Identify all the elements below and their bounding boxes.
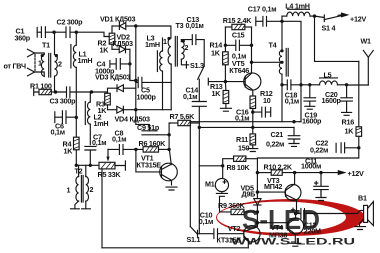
svg-text:Д9Б: Д9Б xyxy=(242,190,256,199)
svg-text:360p: 360p xyxy=(15,34,31,43)
svg-text:1000м: 1000м xyxy=(301,162,321,171)
speaker B1 xyxy=(358,202,374,227)
capacitor C22 xyxy=(336,143,359,153)
resistor R11 xyxy=(250,127,256,148)
svg-text:+12V: +12V xyxy=(348,169,364,178)
wire VD1 to T3 xyxy=(136,26,171,38)
wire R15 right down xyxy=(251,27,253,45)
node U junction (S1.4) xyxy=(313,14,316,17)
wire S1.4 node down and right xyxy=(315,16,359,61)
resistor R16 xyxy=(356,127,362,148)
wire tee down to R6 right xyxy=(168,135,170,150)
switch S1.3 xyxy=(186,62,204,102)
inductor L3 xyxy=(157,38,162,110)
node T4-C18 junction xyxy=(280,83,283,86)
svg-text:КД503: КД503 xyxy=(113,39,134,48)
node C junction xyxy=(54,90,57,93)
svg-text:+12V: +12V xyxy=(350,15,366,24)
resistor R7 xyxy=(169,120,199,135)
node V junction (C19/L5 left) xyxy=(308,83,311,86)
inductor L4 xyxy=(282,9,315,16)
svg-text:C21: C21 xyxy=(271,130,284,139)
resistor R8 xyxy=(223,156,258,166)
wire junction T up / down to T4 xyxy=(282,16,301,122)
svg-text:R8 10K: R8 10K xyxy=(227,163,251,172)
svg-text:WWW.S-LED.RU: WWW.S-LED.RU xyxy=(231,236,355,247)
svg-text:2: 2 xyxy=(185,43,189,52)
svg-text:R10 2,2K: R10 2,2K xyxy=(264,163,293,172)
wire detector output xyxy=(136,109,171,111)
wire T1 secondary top xyxy=(54,32,56,54)
inductor L1 xyxy=(71,32,76,117)
resistor R10 xyxy=(257,170,282,175)
node M junction (VT1 base node) xyxy=(134,148,137,151)
svg-text:0,22м: 0,22м xyxy=(266,140,284,149)
node AD junction (R9 right / VD5 bottom) xyxy=(256,210,259,213)
node C17-line/antenna-line crossing junction xyxy=(299,83,302,86)
node W junction (C20/L5 right) xyxy=(345,83,348,86)
switch S1.1 xyxy=(190,227,199,238)
inductor L5 xyxy=(310,78,347,85)
resistor R13 xyxy=(223,82,229,109)
node A junction xyxy=(52,31,55,34)
T2 winding2 ground xyxy=(82,201,91,209)
wire C9 plate to tee xyxy=(157,134,169,136)
svg-text:R9 360K: R9 360K xyxy=(218,201,246,210)
transistor VT4 xyxy=(288,214,304,244)
svg-text:S1.1: S1.1 xyxy=(187,235,201,244)
potentiometer R5 xyxy=(99,161,125,170)
wire VT5 collector to T4 xyxy=(252,61,283,63)
capacitor C20 xyxy=(341,85,353,116)
svg-text:1K: 1K xyxy=(211,49,221,58)
capacitor C4 xyxy=(110,59,130,70)
capacitor C11 polarized xyxy=(314,173,328,201)
lower horizontal bus upper (emitter bus) xyxy=(190,121,299,123)
svg-text:B1: B1 xyxy=(358,194,367,203)
svg-text:VТ2: VТ2 xyxy=(228,224,241,233)
resistor R1 xyxy=(34,89,56,96)
svg-text:1: 1 xyxy=(163,37,167,46)
svg-text:1mH: 1mH xyxy=(94,119,109,128)
R11 ground xyxy=(248,149,258,152)
node AC junction (VD5 top) xyxy=(256,190,259,193)
node Q junction (VT5 base) xyxy=(224,80,227,83)
svg-text:VD3 КД503: VD3 КД503 xyxy=(95,73,130,82)
svg-text:1: 1 xyxy=(38,59,42,68)
svg-text:0,1м: 0,1м xyxy=(285,97,299,106)
capacitor C10 xyxy=(198,229,244,239)
wire to R3 xyxy=(92,92,108,93)
node D junction xyxy=(90,90,93,93)
node E junction (L1/C6/R4) xyxy=(75,116,78,119)
wire VT2 collector to VT4 base xyxy=(257,222,287,224)
svg-text:1000p: 1000p xyxy=(137,93,157,102)
node L junction (R7 left tee) xyxy=(167,133,170,136)
capacitor C21 xyxy=(288,127,300,146)
svg-text:1K: 1K xyxy=(345,127,355,136)
lower horizontal bus lower xyxy=(199,126,294,128)
resistor R2 xyxy=(109,26,115,49)
transformer T3 xyxy=(167,37,186,67)
node Y junction (C21 top) xyxy=(292,120,295,123)
svg-text:T4: T4 xyxy=(269,41,277,50)
transformer T1 xyxy=(41,54,58,78)
diode VD2 xyxy=(112,46,130,53)
node O junction (R14/C15 left) xyxy=(224,44,227,47)
wire VD2 cathode down xyxy=(130,49,136,80)
svg-text:1600p: 1600p xyxy=(302,117,322,126)
node Z junction (VT5 emitter bus) xyxy=(251,126,254,129)
bottom bus wire xyxy=(102,247,248,249)
capacitor C1 xyxy=(37,27,54,38)
svg-text:КТ315Е: КТ315Е xyxy=(137,161,162,170)
antenna W1 xyxy=(363,50,373,85)
node AA junction (M1/R8) xyxy=(221,164,224,167)
transformer T2 xyxy=(76,165,89,202)
+12V audio bus xyxy=(282,172,339,174)
node P junction (C15 right / VT5 collector) xyxy=(250,44,253,47)
svg-text:T1: T1 xyxy=(42,41,50,50)
svg-text:10: 10 xyxy=(263,96,271,105)
svg-text:1mH: 1mH xyxy=(78,56,93,65)
node G junction (C7 bottom) xyxy=(89,164,92,167)
wire R12 down to bus xyxy=(252,112,254,127)
wire to detector xyxy=(76,32,109,36)
transistor VT5 xyxy=(225,45,261,96)
R5 wiper arrow from C8 xyxy=(106,149,109,161)
capacitor C19 xyxy=(304,85,316,109)
wire VT3 base xyxy=(257,191,284,193)
resistor R15 xyxy=(225,24,251,29)
svg-text:220М: 220М xyxy=(304,227,321,236)
node J junction (C5 left) xyxy=(134,79,137,82)
svg-text:C15: C15 xyxy=(232,31,245,40)
diode VD4 xyxy=(108,106,136,113)
diode VD3 xyxy=(108,85,136,94)
svg-text:МП42: МП42 xyxy=(264,182,282,191)
svg-text:VD1 КД503: VD1 КД503 xyxy=(100,15,135,24)
svg-text:R6 160K: R6 160K xyxy=(139,139,167,148)
main detector vertical bus xyxy=(135,26,137,110)
transistor VT2 xyxy=(244,223,260,248)
diode VD5 xyxy=(254,192,261,212)
node I junction (C4/VD2 line) xyxy=(128,62,131,65)
resistor R6 xyxy=(136,147,169,152)
wire bus end up xyxy=(300,121,302,123)
svg-text:МП38: МП38 xyxy=(269,231,287,240)
node X junction (R16/C22) xyxy=(357,146,360,149)
svg-text:L5: L5 xyxy=(324,71,332,80)
node AE junction (VT2 collector) xyxy=(256,221,259,224)
+12V bottom arrow xyxy=(338,171,344,175)
resistor R12 xyxy=(250,96,256,112)
capacitor C5 xyxy=(136,77,171,87)
svg-text:2: 2 xyxy=(58,60,62,69)
microphone M1 xyxy=(215,166,228,194)
wire R16 node to audio rail xyxy=(257,148,358,158)
wire R15 left down xyxy=(224,27,226,45)
node AF junction (VT3 emitter) xyxy=(293,171,296,174)
VT1 emitter ground xyxy=(166,187,177,190)
wire VD5 node down to VT2 collector xyxy=(256,212,258,223)
svg-text:0,1м: 0,1м xyxy=(92,138,106,147)
svg-text:S1.3: S1.3 xyxy=(190,61,204,70)
capacitor C16 xyxy=(253,107,271,117)
capacitor C14 xyxy=(192,102,206,124)
svg-text:1K: 1K xyxy=(100,46,110,55)
wire to R16 xyxy=(358,61,360,126)
svg-text:от ГВЧ: от ГВЧ xyxy=(4,62,26,71)
svg-text:2: 2 xyxy=(90,185,94,194)
node R junction (collector/T4 tap) xyxy=(250,61,253,64)
VT4 emitter ground xyxy=(290,243,301,246)
svg-text:1: 1 xyxy=(67,186,71,195)
VT5 base terminal tick xyxy=(208,78,225,85)
switch S1.4 with +12V arrow xyxy=(315,13,348,21)
inductor L2 xyxy=(85,92,91,145)
node T junction (C17/L4) xyxy=(280,20,283,23)
node S junction (R12/C16) xyxy=(251,110,254,113)
node H junction (VD1 cathode) xyxy=(134,24,137,27)
node AB junction (R10 tee) xyxy=(256,171,259,174)
capacitor C18 xyxy=(287,80,310,90)
svg-text:КТ315Е: КТ315Е xyxy=(217,236,242,245)
wire C5 right / T3 vertical xyxy=(170,64,172,110)
svg-text:150: 150 xyxy=(238,144,249,153)
svg-text:0,1м: 0,1м xyxy=(183,92,197,101)
wire antenna to L5 node xyxy=(347,84,369,86)
node AH junction (VT3/VT4 collectors) xyxy=(294,212,297,215)
capacitor C3 xyxy=(56,87,92,97)
svg-text:R1 100: R1 100 xyxy=(30,82,52,91)
watermark red swoosh (S-LED logo) xyxy=(216,199,365,236)
capacitor C15 xyxy=(225,40,251,50)
resistor R4 xyxy=(74,117,80,165)
capacitor C9 xyxy=(136,110,157,135)
transistor VT1 xyxy=(136,149,177,185)
vertical V2 wire xyxy=(189,122,191,227)
svg-text:1K: 1K xyxy=(212,89,222,98)
node F junction (R4 bottom) xyxy=(75,164,78,167)
svg-text:0,1м: 0,1м xyxy=(51,128,65,137)
svg-text:T3: T3 xyxy=(176,21,184,30)
capacitor C8 xyxy=(108,145,136,155)
transistor VT3 xyxy=(285,173,301,214)
svg-text:R16: R16 xyxy=(342,118,355,127)
svg-text:0,1м: 0,1м xyxy=(235,114,249,123)
R13 ground xyxy=(220,108,231,111)
capacitor C6 xyxy=(55,111,77,124)
svg-text:1K: 1K xyxy=(64,147,74,156)
T2 winding1 ground xyxy=(71,201,80,209)
svg-text:C9 51p: C9 51p xyxy=(137,123,160,132)
svg-text:КТ646: КТ646 xyxy=(229,66,249,75)
svg-text:R5 33K: R5 33K xyxy=(98,170,122,179)
svg-text:0,1м: 0,1м xyxy=(112,135,126,144)
node AG junction (C11 top) xyxy=(319,171,322,174)
M1 ground xyxy=(216,193,227,196)
svg-text:C2 300p: C2 300p xyxy=(57,18,84,27)
svg-text:1600p: 1600p xyxy=(322,96,342,105)
capacitor C17 xyxy=(256,16,282,26)
svg-text:C3 300p: C3 300p xyxy=(50,97,77,106)
wire R5 down to bottom bus xyxy=(101,169,103,248)
resistor R14 xyxy=(223,45,229,81)
capacitor C13 xyxy=(181,35,204,66)
transformer T4 xyxy=(279,49,288,122)
svg-text:R7 5,6K: R7 5,6K xyxy=(170,112,196,121)
wire T2 top bus xyxy=(76,164,99,166)
capacitor C7 xyxy=(85,146,96,165)
input plug from HF generator xyxy=(28,49,45,76)
node K junction (VD4 cathode) xyxy=(134,108,137,111)
capacitor C2 xyxy=(54,27,76,38)
wire R8 row xyxy=(199,165,222,167)
wire T1 secondary bottom xyxy=(54,76,56,92)
svg-text:M1: M1 xyxy=(205,180,215,189)
svg-text:0,1м: 0,1м xyxy=(199,217,213,226)
node N junction (VT1 collector node) xyxy=(167,148,170,151)
diode VD1 xyxy=(112,23,136,30)
svg-text:C17 0,1м: C17 0,1м xyxy=(248,5,276,14)
svg-text:T2: T2 xyxy=(75,167,83,176)
svg-text:0,22м: 0,22м xyxy=(310,146,328,155)
svg-text:W1: W1 xyxy=(361,37,372,46)
node V1-bus junction xyxy=(198,126,201,129)
wire R8 right down xyxy=(256,159,258,192)
resistor R3 xyxy=(105,93,111,109)
B1 ground xyxy=(355,227,366,230)
svg-text:R15 2,4K: R15 2,4K xyxy=(223,16,252,25)
vertical V1 wire (C14 branch down) xyxy=(198,123,200,229)
resistor R9 xyxy=(220,198,258,215)
node B junction xyxy=(75,31,78,34)
svg-text:S1 4: S1 4 xyxy=(322,24,336,33)
svg-text:0,01м: 0,01м xyxy=(186,21,204,30)
capacitor C12 polarized xyxy=(291,208,357,218)
wire top input xyxy=(37,31,41,33)
svg-text:L4 1mH: L4 1mH xyxy=(285,2,310,11)
svg-text:1mH: 1mH xyxy=(145,40,160,49)
antenna/output wire xyxy=(283,84,288,86)
